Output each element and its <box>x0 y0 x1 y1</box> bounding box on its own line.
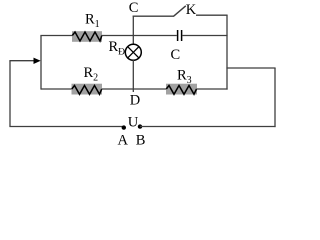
wire: right inner vertical <box>226 15 228 89</box>
capacitor C <box>178 30 182 41</box>
wire: inner left vertical <box>40 36 42 90</box>
svg-text:R3: R3 <box>177 67 192 86</box>
wire: R2 branch left <box>41 88 72 90</box>
svg-text:R1: R1 <box>85 12 100 31</box>
wire: switch branch right <box>196 14 228 16</box>
wire: R1 branch left <box>40 35 73 37</box>
wire: bottom right segment <box>140 126 276 128</box>
wire: right branch horizontal <box>226 67 275 69</box>
wire: left outer vertical <box>9 61 11 127</box>
wire: R2-D-R3 horizontal <box>102 88 167 90</box>
svg-text:RĐ: RĐ <box>109 39 126 58</box>
resistor R2 <box>72 84 103 95</box>
svg-text:C: C <box>171 47 181 63</box>
terminal B dot <box>138 124 142 128</box>
terminal A dot <box>122 125 126 129</box>
lamp RД <box>125 44 141 60</box>
arrow head (wiper contact) <box>34 58 41 64</box>
wire: capacitor branch right <box>182 35 227 37</box>
wire: capacitor branch left <box>133 35 177 37</box>
svg-text:R2: R2 <box>84 65 99 84</box>
svg-text:C: C <box>129 0 139 16</box>
svg-text:D: D <box>130 93 140 109</box>
wire: switch branch left <box>133 15 174 17</box>
wire: R3 branch right <box>197 88 228 90</box>
svg-text:U: U <box>128 115 139 131</box>
svg-text:K: K <box>186 2 197 18</box>
resistor R3 <box>166 84 197 95</box>
wire: middle vertical upper (C node to lamp) <box>132 16 134 45</box>
switch K blade <box>174 6 186 16</box>
wire: middle vertical lower (lamp to node D) <box>132 60 134 92</box>
resistor R1 <box>72 31 102 42</box>
svg-text:A: A <box>118 133 129 149</box>
svg-text:B: B <box>136 133 146 149</box>
wire: arrow feed horizontal <box>9 60 34 62</box>
wire: right outer vertical <box>274 68 276 127</box>
wire: bottom left segment <box>9 126 123 128</box>
wire: R1 branch right <box>102 35 134 37</box>
